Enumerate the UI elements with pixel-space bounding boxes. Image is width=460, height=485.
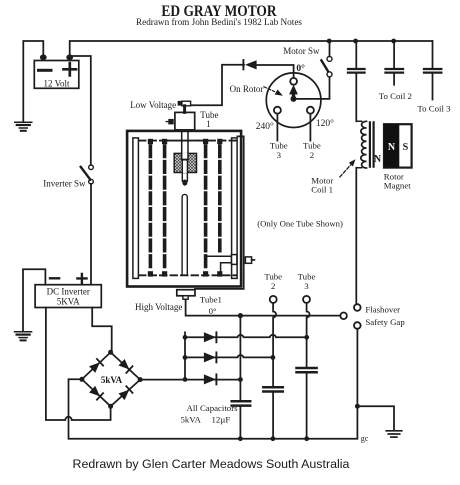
svg-text:On Rotor: On Rotor [230,84,264,94]
ground G3 (bottom right) [386,431,402,437]
terminal circle Tube 2 [270,296,277,303]
svg-text:N: N [388,142,396,153]
rotor contact 0 degrees [290,78,297,85]
svg-text:3: 3 [277,150,282,160]
tube center electrode hatched block [174,153,196,172]
capacitor C2 with lead [391,39,396,44]
wire top rail [70,41,433,55]
polarity plus label [77,274,86,283]
svg-text:0°: 0° [296,63,305,74]
capacitor C6 [297,368,317,372]
svg-text:Coil 1: Coil 1 [311,185,333,195]
svg-text:0°: 0° [209,306,217,316]
tube dashed electrode column 1 [148,139,153,144]
diode D1 [204,332,216,342]
wire to bottom-right ground [357,406,394,430]
junction dot bus row2 [183,355,188,360]
coil core lines [370,122,374,166]
svg-text:Redrawn from John Bedini's 198: Redrawn from John Bedini's 1982 Lab Note… [136,17,302,27]
svg-text:(Only One Tube Shown): (Only One Tube Shown) [257,218,343,228]
wire switch to DC inverter [90,184,92,285]
rotor center node [291,96,297,102]
junction dot HV line / bus A [238,313,243,318]
bridge diode bottom-left [89,386,103,400]
switch Motor Sw [327,56,332,61]
diode D2 [204,352,216,362]
diode D4 (points left) [245,60,257,69]
wire diode to low voltage terminal [191,65,244,106]
bus B vertical with hop and capacitor C5 [273,303,276,439]
capacitor C3 with lead [432,41,434,100]
diode D3 [204,374,216,384]
svg-text:Low Voltage: Low Voltage [130,100,176,110]
wire rotor 240 stub [276,114,278,141]
svg-text:To Coil 2: To Coil 2 [379,91,412,101]
svg-text:N: N [374,154,382,165]
tube lower rod [182,194,187,275]
diode bus left vertical [184,332,186,379]
node HV bus line (y=315.6) [186,299,341,315]
svg-text:2: 2 [310,150,314,160]
DC inverter U1 [35,285,101,308]
terminal circle Tube 3 [303,296,310,303]
ground G1 (battery) [15,122,32,131]
tube upper rod with tip [182,160,187,181]
svg-text:Inverter Sw: Inverter Sw [43,179,86,189]
wire diode row 1 (hops buses A,B, dot at C) [185,335,307,338]
svg-text:5KVA: 5KVA [57,297,80,307]
svg-text:1: 1 [206,119,211,129]
wire bridge left vertex down to bottom rail and to flashover gap [69,329,358,439]
tube dashed electrode column 2 [162,139,167,144]
capacitor C4 [232,401,251,405]
svg-text:Motor Sw: Motor Sw [283,46,320,56]
svg-text:2: 2 [271,281,275,291]
tube center stem from anode [182,131,188,160]
wire rotor center to motor switch [297,77,330,99]
flashover gap circle top [354,304,361,311]
svg-text:All Capacitors: All Capacitors [187,403,239,413]
wire diode row 3 from bridge right vertex [140,379,240,381]
junction dot bottom rail bus B [271,436,276,441]
svg-text:Flashover: Flashover [365,304,400,314]
svg-text:120°: 120° [316,118,334,129]
conversion tube envelope [127,131,241,287]
bridge diode top-right [119,359,133,373]
tube high voltage cap box [177,290,195,296]
junction dot row2 / bus B [271,355,276,360]
capacitor C1 [348,69,365,73]
wire tube external right lead [195,136,244,289]
bus A vertical with capacitor C4 [239,316,241,439]
rotor distributor circle [266,73,321,128]
bridge diode bottom-right [119,386,133,400]
terminal Low Voltage [178,101,182,106]
svg-text:Redrawn by Glen Carter Meadows: Redrawn by Glen Carter Meadows South Aus… [73,457,350,471]
terminal tube side [245,257,251,263]
wire motor switch to top rail [329,41,331,56]
svg-text:DC Inverter: DC Inverter [47,287,90,297]
tube right plate [232,138,238,279]
svg-text:3: 3 [304,281,309,291]
svg-text:5kVA: 5kVA [101,375,123,385]
wire DC inverter bottom-left to bridge bottom (hops over descending wire) [46,308,111,421]
switch Inverter Sw [89,165,94,170]
svg-text:5kVA: 5kVA [181,415,202,425]
rotor arm arrow [289,85,298,95]
ground G2 (DC inverter) [15,332,32,341]
svg-text:12 Volt: 12 Volt [44,79,70,89]
flashover gap circle left [340,313,347,320]
wire diode row 2 (hops bus A, dot at B) [185,355,273,357]
wire battery plus to inverter switch [73,56,91,165]
svg-text:Magnet: Magnet [384,181,411,191]
rotor contact 120 degrees [307,107,314,114]
svg-text:Tube1: Tube1 [200,294,222,304]
bridge diode top-left [89,359,103,373]
rotor contact 240 degrees [274,107,281,114]
inductor Motor Coil 1 [356,121,361,168]
svg-text:gc: gc [361,434,369,443]
svg-text:240°: 240° [256,121,274,132]
svg-text:To Coil 3: To Coil 3 [417,103,451,113]
svg-text:Safety Gap: Safety Gap [365,317,405,327]
junction dot right riser to ground [355,404,360,409]
wire rotor 0 contact up-left to diode [257,65,294,78]
wire DC inverter minus to ground [23,269,45,331]
wire right column: top rail to cap C1 to motor coil to flashover top [355,41,357,304]
junction dot bottom rail bus C [304,436,309,441]
svg-text:S: S [403,142,409,153]
tube top dashed grid line [139,140,168,142]
bus C vertical with hop and capacitor C6 [307,303,310,439]
junction dot rail / right column [353,39,358,44]
polarity minus label [50,277,59,279]
capacitor C5 [263,387,283,391]
battery B1 12 Volt [34,61,79,89]
rotor magnet [384,124,412,167]
tube 1 side plug [168,119,173,125]
svg-text:12µF: 12µF [212,415,231,425]
bridge rectifier 5kVA [82,352,140,406]
svg-text:High Voltage: High Voltage [135,302,182,312]
junction dot bottom rail bus A [238,436,243,441]
tube bottom dashed grid line [139,274,237,276]
junction dot bus row3 [183,377,188,382]
junction dot row3 / bus A [238,377,243,382]
wire battery minus to ground [23,41,43,122]
wire rotor 120 stub [309,114,311,141]
flashover gap circle bottom [354,322,361,329]
tube dashed electrode column 4 [217,139,222,144]
tube dashed electrode column 3 [203,139,208,144]
junction dot rail / motor switch [327,39,332,44]
junction dot bus row1 [183,335,188,340]
tube left plate [133,138,139,279]
wire DC inverter plus to bridge top [92,308,112,351]
tube lower-right electrode connection [206,255,231,257]
junction dot row1 / bus C [304,335,309,340]
tube 1 anode cap box [175,112,195,129]
